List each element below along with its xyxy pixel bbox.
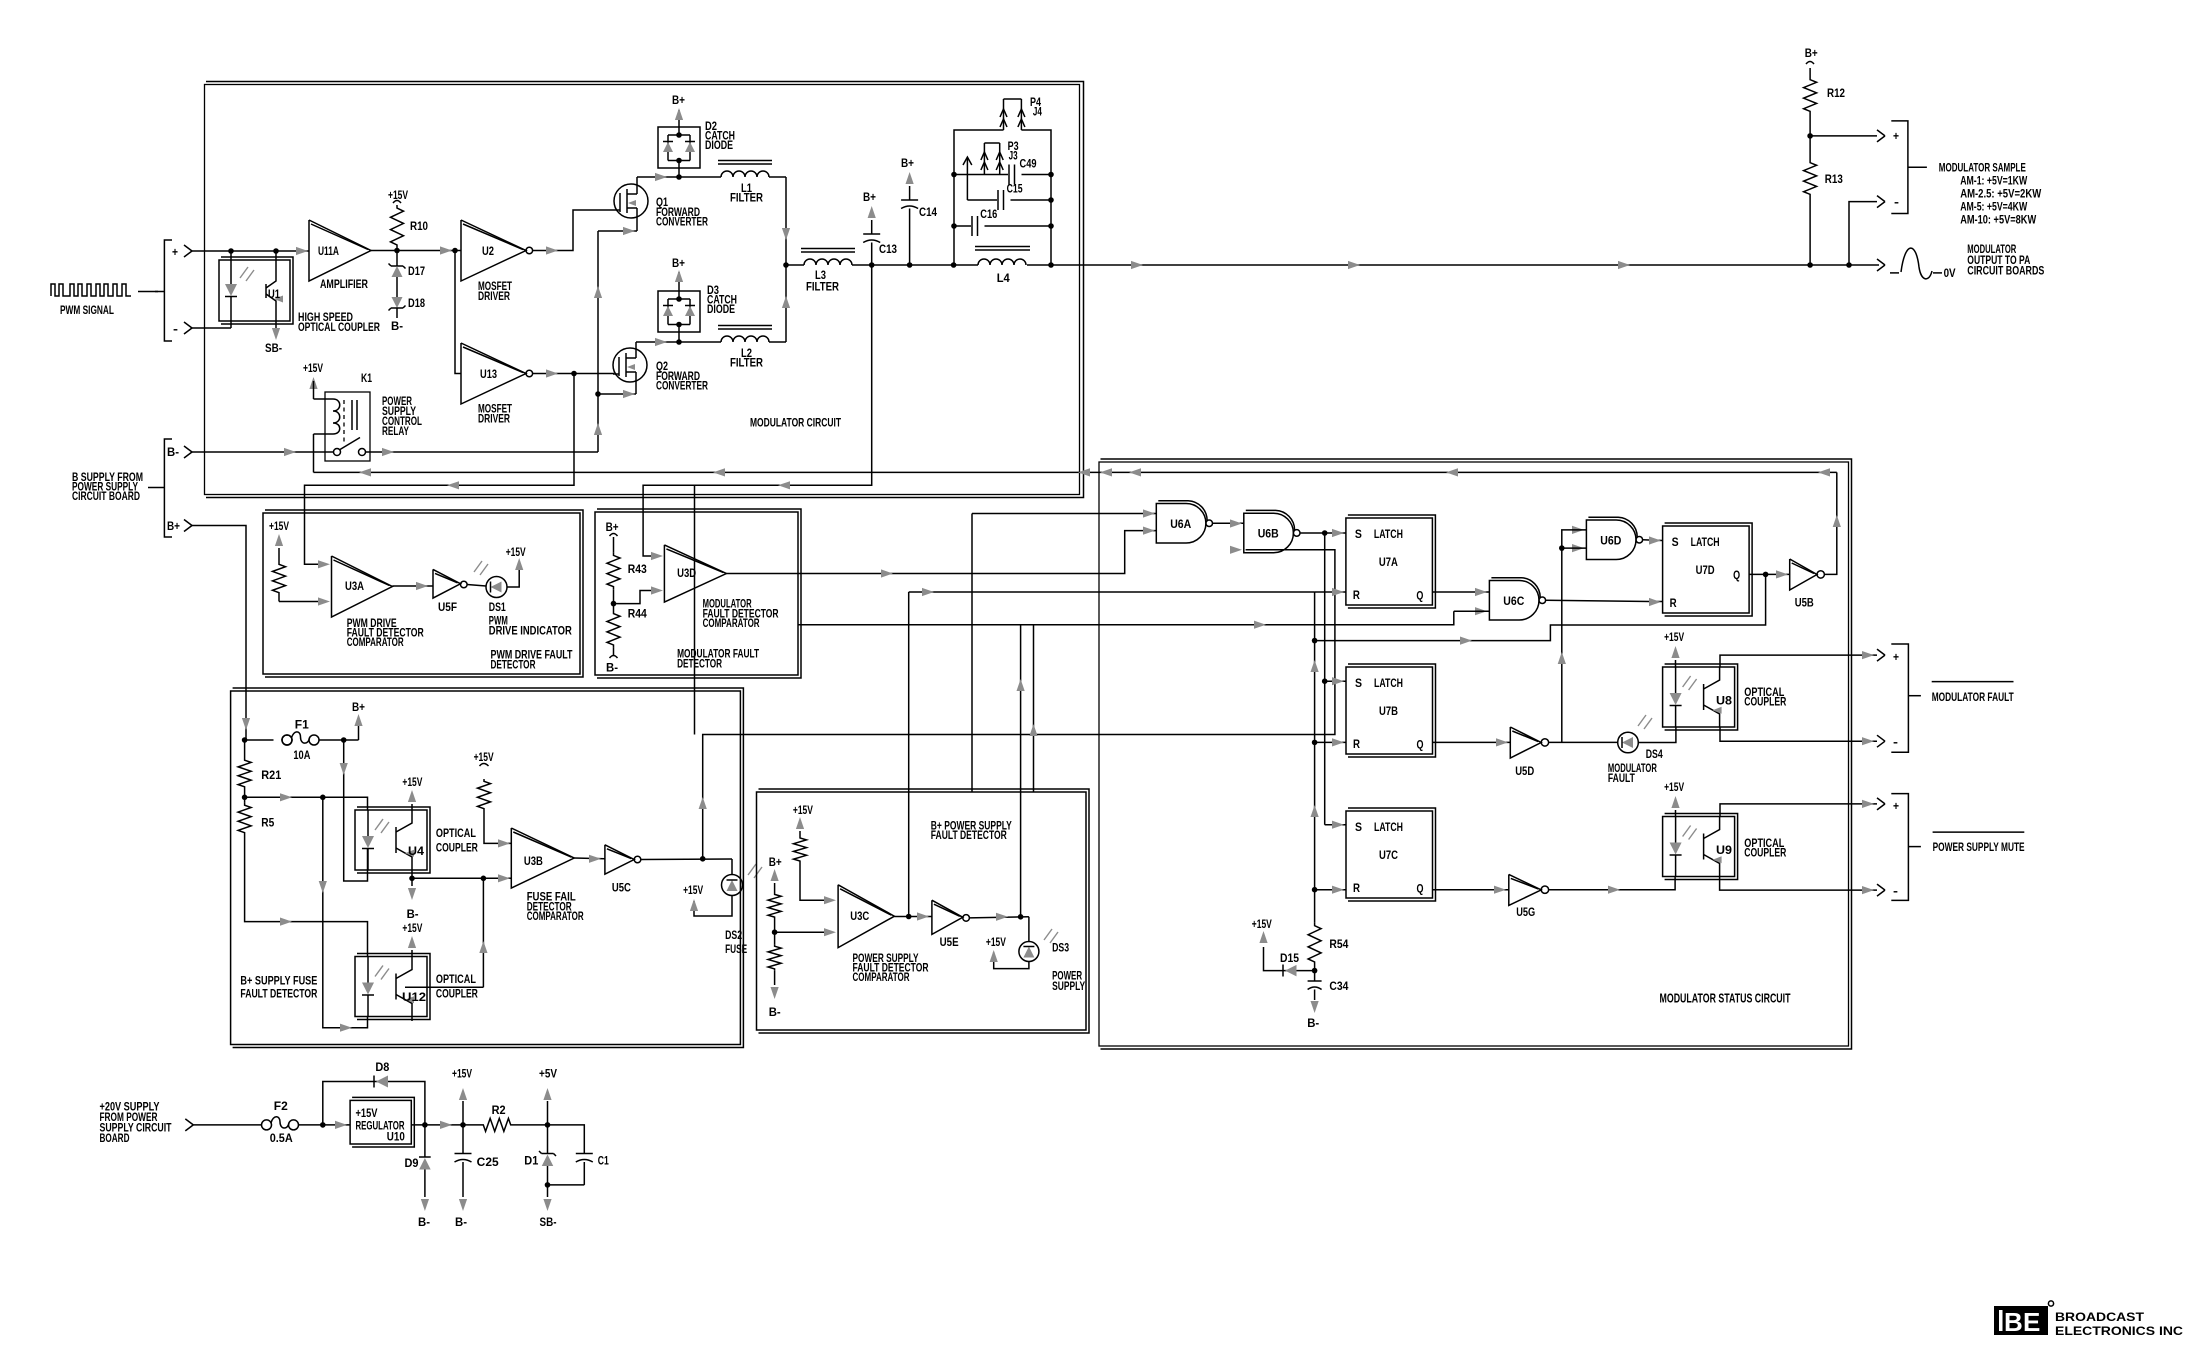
svg-text:U2: U2 <box>482 246 494 258</box>
svg-text:+15V: +15V <box>986 937 1006 949</box>
wire U6D output to U7D set <box>1643 539 1663 542</box>
svg-text:Q: Q <box>1416 591 1423 603</box>
connector bracket MODULATOR FAULT <box>1891 644 1908 752</box>
wire modulator sample C13 to U3D <box>643 265 872 556</box>
svg-text:+15V: +15V <box>1252 919 1272 931</box>
inductor L4 <box>975 246 1030 248</box>
wire U5D output to DS4 <box>1549 741 1618 743</box>
wire U7C Q to U5G <box>1433 889 1509 891</box>
wire U5E output node <box>969 917 1029 918</box>
modulator fault detector box <box>595 512 798 675</box>
svg-text:CIRCUIT BOARDS: CIRCUIT BOARDS <box>1967 266 2044 278</box>
svg-text:+: + <box>172 247 178 259</box>
svg-text:FILTER: FILTER <box>730 193 764 205</box>
capacitor C25 <box>462 1125 464 1154</box>
resistor B+ divider upper <box>768 893 781 920</box>
wire U9 collector to + output <box>1720 804 1877 817</box>
power +5V <box>547 1101 549 1125</box>
diode D2 catch diode <box>658 127 700 168</box>
nand gate U6A <box>1143 509 1155 517</box>
fuse F2 <box>262 1120 272 1130</box>
svg-text:K1: K1 <box>361 373 372 385</box>
wire PWM+ to optocoupler LED <box>192 250 309 252</box>
wire DS3 to +15V <box>994 952 1029 969</box>
svg-text:CONVERTER: CONVERTER <box>656 381 708 393</box>
label MODULATOR FAULT output <box>1932 681 2014 683</box>
wire U5G output to U9 LED <box>1549 876 1676 890</box>
power +15V output node <box>462 1101 464 1125</box>
capacitor C49 <box>1008 165 1010 185</box>
svg-text:B: B <box>2004 1307 2023 1337</box>
power B+ above D2 <box>678 110 680 127</box>
diode D8 bypass <box>323 1082 425 1125</box>
svg-text:B-: B- <box>1307 1018 1319 1030</box>
wire L2 to output rail <box>769 341 786 343</box>
svg-text:FAULT: FAULT <box>1608 773 1635 785</box>
resistor R54 <box>1308 923 1321 965</box>
wire C16 row <box>954 225 971 227</box>
resistor R13 <box>1804 160 1817 197</box>
inverter U5D <box>1510 727 1541 758</box>
wire R12 to + input <box>1809 114 1811 160</box>
power B+ above fuse <box>358 726 360 740</box>
connector bracket MODULATOR SAMPLE <box>1891 121 1908 214</box>
nand gate U6B <box>1230 546 1242 554</box>
wire source bus to relay B- <box>597 231 599 452</box>
diode D15 <box>1283 970 1297 972</box>
svg-text:DRIVER: DRIVER <box>478 291 511 303</box>
svg-text:S: S <box>1355 822 1362 834</box>
inverter U5B <box>1790 559 1817 590</box>
svg-text:L3: L3 <box>815 270 826 282</box>
inverter U5F <box>433 569 461 598</box>
svg-text:U5D: U5D <box>1515 766 1534 778</box>
wire C14 to rail <box>909 209 911 266</box>
inductor L2 filter <box>718 325 772 327</box>
wire U6C lower input feed <box>798 611 1454 625</box>
power B+ above D3 <box>678 272 680 291</box>
relay K1 power supply control relay <box>325 392 370 461</box>
zener D17 <box>396 251 398 267</box>
connector +20V input <box>185 1119 193 1125</box>
svg-text:+15V: +15V <box>356 1108 378 1120</box>
svg-text:DS3: DS3 <box>1052 943 1069 955</box>
wire relay contact to Q source bus <box>366 451 599 453</box>
svg-text:FAULT DETECTOR: FAULT DETECTOR <box>931 830 1008 842</box>
svg-text:DRIVER: DRIVER <box>478 414 511 426</box>
svg-text:B+ SUPPLY FUSE: B+ SUPPLY FUSE <box>240 976 317 988</box>
svg-text:U5G: U5G <box>1516 907 1535 919</box>
svg-text:B+: B+ <box>1805 48 1818 60</box>
svg-text:LATCH: LATCH <box>1374 678 1403 690</box>
svg-text:OPTICAL COUPLER: OPTICAL COUPLER <box>298 322 381 334</box>
svg-text:R54: R54 <box>1329 939 1349 951</box>
svg-text:U6A: U6A <box>1170 519 1191 531</box>
wire U6D input ties <box>1562 530 1587 743</box>
svg-text:DS4: DS4 <box>1646 749 1663 761</box>
node R43 R44 junction <box>613 589 615 611</box>
wire echo feedback line <box>1033 625 1035 792</box>
svg-text:U7B: U7B <box>1379 706 1398 718</box>
svg-text:U3C: U3C <box>850 911 869 923</box>
svg-text:DRIVE INDICATOR: DRIVE INDICATOR <box>489 626 573 638</box>
svg-text:+15V: +15V <box>402 923 422 935</box>
svg-text:U5F: U5F <box>438 602 457 614</box>
wire C49 row <box>954 174 1008 176</box>
wire bus tap to fuse detector <box>694 485 696 734</box>
svg-text:R43: R43 <box>628 564 647 576</box>
svg-text:COMPARATOR: COMPARATOR <box>853 972 910 984</box>
svg-text:MODULATOR SAMPLE: MODULATOR SAMPLE <box>1939 163 2026 175</box>
svg-text:U6D: U6D <box>1600 535 1621 547</box>
svg-text:-: - <box>1893 886 1898 898</box>
wire Q1 drain to catch diode rail <box>636 177 638 184</box>
wire U3B to U5C <box>574 857 605 860</box>
regulator U10 <box>350 1100 411 1144</box>
wire - input from rail <box>1849 202 1877 265</box>
svg-text:RELAY: RELAY <box>382 426 409 438</box>
node test point arrow <box>966 158 968 200</box>
svg-text:MODULATOR FAULT: MODULATOR FAULT <box>1932 692 2014 704</box>
wire U12 emitter to U3B input <box>411 1017 413 1021</box>
transistor Q1 forward converter MOSFET <box>614 184 648 218</box>
wire U2 output to Q1 gate <box>533 210 614 251</box>
capacitor C14 <box>901 199 918 201</box>
resistor R2 <box>481 1118 513 1131</box>
svg-text:C14: C14 <box>919 207 938 219</box>
svg-text:R: R <box>1670 598 1678 610</box>
svg-text:Q: Q <box>1417 884 1424 896</box>
svg-text:S: S <box>1355 529 1362 541</box>
svg-text:AM-2.5: +5V=2KW: AM-2.5: +5V=2KW <box>1960 189 2041 201</box>
svg-text:B-: B- <box>769 1007 781 1019</box>
wire U8 collector to + output <box>1720 655 1877 667</box>
wire reset chain from U3C <box>909 591 1315 593</box>
svg-text:U7C: U7C <box>1379 850 1398 862</box>
svg-text:ELECTRONICS INC: ELECTRONICS INC <box>2055 1326 2183 1338</box>
svg-text:R44: R44 <box>628 609 648 621</box>
svg-text:D18: D18 <box>408 298 425 310</box>
wire DS2 to +15V <box>694 896 732 917</box>
wire junction down to U12 LED return <box>323 797 368 1027</box>
connector P3 J3 <box>983 143 985 175</box>
svg-text:COUPLER: COUPLER <box>436 843 479 855</box>
power B+ above C13 <box>871 220 873 234</box>
svg-text:R: R <box>1353 590 1361 602</box>
capacitor C15 <box>997 190 999 210</box>
wire U5F to DS1 <box>467 585 486 587</box>
svg-text:U9: U9 <box>1716 845 1732 857</box>
svg-text:J4: J4 <box>1033 107 1042 119</box>
optocoupler U12 <box>355 957 427 1017</box>
diode D3 catch diode <box>658 291 700 332</box>
capacitor C34 <box>1308 980 1322 982</box>
wire power supply fault feedback up <box>1020 625 1022 917</box>
svg-text:DETECTOR: DETECTOR <box>677 659 722 671</box>
svg-text:C34: C34 <box>1329 981 1349 993</box>
svg-text:FILTER: FILTER <box>730 358 764 370</box>
wire reset chain vertical <box>1314 592 1316 923</box>
wire F1 to B+ node <box>319 739 359 741</box>
svg-text:L4: L4 <box>997 273 1011 285</box>
svg-text:+5V: +5V <box>539 1069 557 1081</box>
svg-text:MODULATOR STATUS CIRCUIT: MODULATOR STATUS CIRCUIT <box>1660 991 1791 1006</box>
wire D18 to B- <box>396 308 398 318</box>
connector bracket POWER SUPPLY MUTE <box>1891 794 1908 901</box>
svg-text:C25: C25 <box>477 1157 500 1169</box>
svg-text:PWM SIGNAL: PWM SIGNAL <box>60 305 114 317</box>
svg-text:COUPLER: COUPLER <box>1744 697 1787 709</box>
svg-text:-: - <box>173 324 178 336</box>
wire fuse fault to status circuit <box>703 550 1335 859</box>
svg-text:U6C: U6C <box>1503 596 1524 608</box>
wire U3D output to U6A <box>726 531 1156 574</box>
wire DS1 to +15V <box>507 570 519 587</box>
power B+ above C14 <box>909 186 911 200</box>
svg-text:U3B: U3B <box>524 856 543 868</box>
wire U13 output sample to U3A <box>305 374 575 565</box>
svg-text:OPTICAL: OPTICAL <box>436 974 476 986</box>
zener D18 <box>396 277 398 297</box>
wire U7B Q to U5D <box>1433 741 1510 743</box>
wire R2 to +5V node <box>513 1124 548 1126</box>
svg-text:B-: B- <box>407 909 419 921</box>
wire U6B output to latch set chain <box>1300 532 1346 534</box>
LED DS1 PWM drive indicator <box>486 577 507 598</box>
svg-text:U1: U1 <box>268 289 280 301</box>
svg-text:FILTER: FILTER <box>806 282 840 294</box>
svg-text:R12: R12 <box>1827 88 1845 100</box>
latch U7D <box>1663 526 1750 613</box>
svg-text:COMPARATOR: COMPARATOR <box>347 637 404 649</box>
svg-text:COMPARATOR: COMPARATOR <box>527 911 584 923</box>
svg-text:POWER SUPPLY MUTE: POWER SUPPLY MUTE <box>1933 842 2025 854</box>
svg-text:B+: B+ <box>672 95 685 107</box>
svg-text:OPTICAL: OPTICAL <box>436 828 476 840</box>
inverter U5E <box>932 900 963 934</box>
optocoupler U9 <box>1663 817 1735 877</box>
svg-text:+15V: +15V <box>303 363 323 375</box>
PWM drive fault detector box <box>263 513 580 674</box>
svg-text:BOARD: BOARD <box>100 1133 130 1145</box>
svg-text:R: R <box>1353 739 1361 751</box>
svg-text:AM-1: +5V=1KW: AM-1: +5V=1KW <box>1960 176 2027 188</box>
svg-text:C16: C16 <box>980 209 997 221</box>
wire U7A Q to U6C <box>1432 591 1489 593</box>
svg-text:DS2: DS2 <box>725 930 742 942</box>
svg-text:CONVERTER: CONVERTER <box>656 217 708 229</box>
connector bracket PWM input <box>164 240 172 341</box>
wire U7D reset feedback <box>1315 574 1766 640</box>
wire L1 to output rail <box>769 176 786 178</box>
svg-text:D9: D9 <box>405 1158 419 1170</box>
svg-text:FAULT DETECTOR: FAULT DETECTOR <box>240 989 318 1001</box>
svg-text:+: + <box>1893 801 1899 813</box>
svg-text:CIRCUIT BOARD: CIRCUIT BOARD <box>72 491 140 503</box>
resistor R10 <box>391 205 404 248</box>
svg-text:R10: R10 <box>410 221 428 233</box>
svg-text:LATCH: LATCH <box>1374 822 1403 834</box>
svg-text:LATCH: LATCH <box>1374 529 1403 541</box>
buffer U2 MOSFET driver <box>461 220 526 281</box>
svg-text:Q: Q <box>1733 570 1740 582</box>
svg-text:DIODE: DIODE <box>705 140 733 152</box>
resistor R43 <box>607 553 620 590</box>
svg-text:COUPLER: COUPLER <box>436 989 479 1001</box>
svg-text:S: S <box>1355 678 1362 690</box>
op-amp U3D modulator fault comparator <box>651 552 663 560</box>
wire Q2 source return <box>635 382 637 394</box>
wire rail L3 to R13 node <box>852 264 978 266</box>
wire F2 to regulator <box>299 1124 351 1126</box>
svg-text:AM-5: +5V=4KW: AM-5: +5V=4KW <box>1960 202 2027 214</box>
svg-text:B-: B- <box>418 1217 430 1229</box>
svg-text:C13: C13 <box>879 244 897 256</box>
op-amp U3A PWM drive fault comparator <box>318 560 330 568</box>
wire regulator output node <box>411 1124 481 1126</box>
power +15V for D15 <box>1264 947 1284 971</box>
svg-text:B+: B+ <box>167 521 180 533</box>
svg-text:-: - <box>1893 737 1898 749</box>
wire C13 to rail and sample line <box>871 243 873 266</box>
optocoupler U4 <box>355 810 427 870</box>
wire divider junction to U4 LED top <box>245 797 368 810</box>
wire Q1 source return <box>636 218 638 231</box>
wire U1 to U11A <box>296 247 308 255</box>
wire output rail <box>786 264 804 266</box>
svg-text:D15: D15 <box>1280 953 1300 965</box>
svg-text:COUPLER: COUPLER <box>1744 848 1787 860</box>
connector bracket B supply <box>164 439 172 537</box>
svg-text:F1: F1 <box>295 720 310 732</box>
latch U7B <box>1346 667 1433 754</box>
inductor L1 filter <box>718 160 772 162</box>
nand gate U6C <box>1475 607 1487 615</box>
svg-text:U3A: U3A <box>345 581 364 593</box>
op-amp U3B fuse fail comparator <box>511 828 574 888</box>
wire B- to relay contact <box>192 451 334 453</box>
wire U7D Q to U5B <box>1749 573 1790 575</box>
wire U3C output to U5E <box>894 916 932 918</box>
svg-text:U4: U4 <box>408 846 425 858</box>
inverter U5C <box>605 845 634 874</box>
wire U6A upper feed <box>971 514 973 793</box>
svg-text:C15: C15 <box>1007 184 1023 196</box>
buffer U13 MOSFET driver <box>461 343 526 404</box>
wire power supply mute bus to relay <box>314 471 1837 473</box>
svg-text:B+: B+ <box>606 522 619 534</box>
svg-text:D17: D17 <box>408 266 425 278</box>
svg-text:U3D: U3D <box>677 568 696 580</box>
latch U7C <box>1346 811 1433 898</box>
svg-text:+15V: +15V <box>793 805 813 817</box>
svg-text:DIODE: DIODE <box>707 304 735 316</box>
wire U6C output to U7D reset <box>1546 600 1650 601</box>
svg-text:+: + <box>1893 131 1899 143</box>
svg-text:DS1: DS1 <box>489 602 506 614</box>
svg-text:B+: B+ <box>863 192 876 204</box>
svg-text:+15V: +15V <box>452 1069 472 1081</box>
wire DS4 to U8 LED <box>1638 727 1676 743</box>
svg-text:MODULATOR CIRCUIT: MODULATOR CIRCUIT <box>750 418 841 430</box>
connector P4 J4 <box>1003 99 1005 130</box>
inverter U5G <box>1509 874 1541 905</box>
svg-text:DETECTOR: DETECTOR <box>491 660 536 672</box>
wire U9 emitter to - output <box>1720 876 1877 890</box>
LED DS3 power supply indicator <box>1028 917 1030 942</box>
wire R13 to rail <box>1809 197 1811 265</box>
latch U7A <box>1346 518 1433 605</box>
wire U5B output to mute bus <box>1824 472 1836 574</box>
resistor B+ divider lower <box>768 944 781 971</box>
svg-text:+15V: +15V <box>402 777 422 789</box>
LED DS4 modulator fault indicator <box>1618 732 1639 753</box>
optocoupler U8 <box>1663 667 1735 727</box>
node divider junction to U3C <box>774 919 776 944</box>
transistor Q2 forward converter MOSFET <box>613 348 647 382</box>
wire U4 emitter to B- and U3B <box>411 870 413 878</box>
diode D9 <box>424 1125 426 1157</box>
svg-text:10A: 10A <box>293 750 310 762</box>
resistor PWM threshold <box>273 562 286 595</box>
svg-text:+15V: +15V <box>683 885 703 897</box>
svg-text:U10: U10 <box>387 1132 405 1144</box>
svg-text:B+: B+ <box>769 857 782 869</box>
svg-text:B+: B+ <box>352 702 365 714</box>
svg-text:+: + <box>1893 652 1899 664</box>
modulator circuit box <box>205 85 1080 495</box>
inductor L3 filter <box>801 248 855 250</box>
svg-text:U8: U8 <box>1716 696 1733 708</box>
wire branch to U13 input <box>455 251 461 374</box>
svg-text:AMPLIFIER: AMPLIFIER <box>320 279 369 291</box>
resistor R12 <box>1809 68 1811 77</box>
node R54 bottom junction <box>1314 965 1316 981</box>
wire U11A output to U2 <box>371 250 461 252</box>
svg-text:-: - <box>1894 197 1899 209</box>
svg-text:B+: B+ <box>901 158 914 170</box>
op-amp U11A amplifier <box>309 220 371 281</box>
resistor +15V to U3C <box>794 836 807 863</box>
wire U5C output node <box>641 858 732 861</box>
label B- divider bottom <box>613 648 615 655</box>
wire U6A to U6B <box>1213 522 1244 524</box>
wire U8 emitter to - output <box>1720 727 1877 742</box>
svg-text:0.5A: 0.5A <box>270 1133 293 1145</box>
svg-text:B-: B- <box>167 447 179 459</box>
wire output network box <box>954 130 1004 265</box>
svg-text:R21: R21 <box>261 770 282 782</box>
svg-text:COMPARATOR: COMPARATOR <box>703 618 760 630</box>
modulator status circuit box <box>1099 462 1849 1046</box>
svg-text:J3: J3 <box>1009 151 1018 163</box>
wire SB- from U1 emitter <box>275 321 277 336</box>
B+ power supply fault detector box <box>757 792 1087 1030</box>
svg-text:U7A: U7A <box>1379 557 1398 569</box>
op-amp U3C power supply fault comparator <box>838 885 894 948</box>
svg-text:SB-: SB- <box>265 343 282 355</box>
resistor R21 <box>244 740 246 758</box>
svg-text:E: E <box>2023 1307 2040 1337</box>
svg-text:C1: C1 <box>598 1156 609 1168</box>
wire +20V to F2 <box>193 1124 261 1126</box>
svg-text:LATCH: LATCH <box>1691 537 1720 549</box>
nand gate U6D <box>1572 526 1584 534</box>
wire fuse node to U4 LED <box>344 740 368 881</box>
svg-text:0V: 0V <box>1944 268 1956 280</box>
node R21 R5 junction <box>244 789 246 803</box>
svg-text:U11A: U11A <box>318 246 339 258</box>
